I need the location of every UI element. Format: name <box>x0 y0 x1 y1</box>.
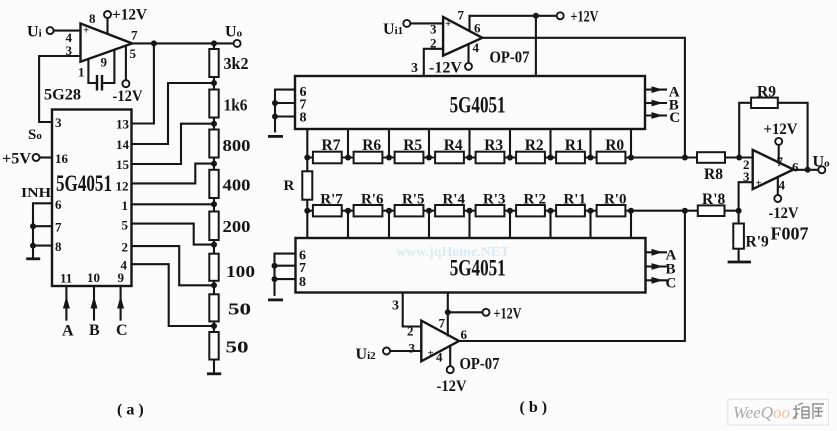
wire U2 pin4 to -12V <box>467 44 469 63</box>
node box2 pin7 <box>272 263 278 269</box>
node R'3R <box>507 208 513 214</box>
svg-text:R0: R0 <box>605 137 624 154</box>
wire U3 output to R' row <box>459 211 685 341</box>
arrow A box2 <box>646 251 667 253</box>
wire pin8 to +12V <box>106 18 108 34</box>
pin 16 wire to +5V <box>40 156 52 158</box>
node tap2 <box>211 121 217 127</box>
svg-text:800: 800 <box>223 136 251 155</box>
svg-text:R'1: R'1 <box>563 192 586 208</box>
svg-text:7: 7 <box>131 28 138 43</box>
svg-text:400: 400 <box>223 176 251 195</box>
wire pin2 to tap6 <box>132 246 215 285</box>
node R'6R <box>386 208 392 214</box>
svg-text:WeeQoo: WeeQoo <box>733 403 790 422</box>
wire Ui2 to U3 pin3 <box>390 350 421 352</box>
wire box2 pins 6,7,8 to ground <box>275 254 296 295</box>
ground (box2) <box>268 298 283 301</box>
node tap5 <box>211 242 217 248</box>
wire pin15 to tap2 <box>132 124 215 164</box>
node tap6 <box>211 282 217 288</box>
svg-text:A: A <box>62 323 74 340</box>
resistor R'7 <box>313 205 342 216</box>
svg-text:200: 200 <box>223 217 251 236</box>
IC 5G4051 box1 (b top) <box>295 76 645 129</box>
resistor R'6 <box>354 205 383 216</box>
node R'8 junction <box>736 208 742 214</box>
svg-text:11: 11 <box>60 271 72 286</box>
wire U3 pin4 to -12V <box>449 346 451 366</box>
resistor 200 <box>209 212 218 241</box>
resistor R2 <box>516 152 545 164</box>
svg-text:8: 8 <box>300 111 307 126</box>
wire pin12 to tap3 <box>132 164 215 184</box>
wire U2 output to R row <box>482 38 685 158</box>
svg-text:4: 4 <box>436 350 443 365</box>
svg-text:+12V: +12V <box>571 9 599 26</box>
node R3R <box>507 155 513 161</box>
resistor R'4 <box>435 205 464 216</box>
svg-text:50: 50 <box>226 338 249 357</box>
resistor 800 <box>209 130 218 158</box>
node U3out-R'row <box>682 208 688 214</box>
wire pin9 to C <box>120 286 122 320</box>
svg-text:R'2: R'2 <box>523 192 546 208</box>
resistor 1k6 <box>209 90 218 118</box>
svg-text:50: 50 <box>228 300 251 319</box>
svg-text:9: 9 <box>101 55 108 70</box>
svg-text:3: 3 <box>743 169 750 184</box>
svg-text:16: 16 <box>55 151 69 166</box>
svg-text:14: 14 <box>116 137 130 152</box>
svg-text:OP-07: OP-07 <box>490 48 530 67</box>
resistor R5 <box>395 152 424 164</box>
resistor R3 <box>476 152 505 164</box>
ground (box1) <box>268 135 283 138</box>
node tap3 <box>211 161 217 167</box>
resistor R4 <box>435 152 464 164</box>
node U2out-Rrow <box>682 155 688 161</box>
svg-text:OP-07: OP-07 <box>460 354 500 373</box>
svg-text:So: So <box>28 127 42 143</box>
wire R'8 junction up to U4 pin3 <box>739 182 753 211</box>
terminal -12V <box>122 80 129 87</box>
svg-text:3: 3 <box>411 61 418 76</box>
svg-text:2: 2 <box>122 240 129 255</box>
node tap4 <box>211 201 217 207</box>
svg-text:6: 6 <box>55 197 62 212</box>
resistor R9 <box>751 98 778 108</box>
ground (R'9) <box>728 261 751 264</box>
node box1 pin7 <box>272 100 278 106</box>
node R0R <box>628 155 634 161</box>
terminal +5V <box>33 154 40 161</box>
arrowhead B <box>91 296 98 309</box>
node R1R <box>588 155 594 161</box>
svg-text:R'7: R'7 <box>320 192 343 208</box>
node R5R <box>426 155 432 161</box>
svg-text:10: 10 <box>87 270 100 285</box>
input terminal Ui1 <box>403 20 410 27</box>
svg-text:C: C <box>116 322 128 339</box>
svg-text:( a ): ( a ) <box>117 402 144 419</box>
arrow B box1 <box>645 102 666 104</box>
svg-text:3: 3 <box>55 115 62 130</box>
wire pin5 to -12V <box>125 46 127 80</box>
svg-text:4: 4 <box>473 40 480 55</box>
node R'4R <box>467 208 473 214</box>
wire Ui1 to op-amp <box>411 22 444 24</box>
wire R'9 to ground <box>738 211 740 260</box>
node box2 pin8 <box>272 276 278 282</box>
wire pin4 to tap7 <box>132 264 215 326</box>
svg-text:4: 4 <box>779 178 786 193</box>
svg-text:R: R <box>284 178 295 194</box>
node +12V branch <box>533 13 539 19</box>
svg-text:5G4051: 5G4051 <box>56 171 112 196</box>
terminal +12V (U3) <box>483 309 490 316</box>
terminal -12V (U2) <box>465 63 472 70</box>
svg-text:100: 100 <box>226 262 255 281</box>
wire U2 pin2 to box1 pin3 <box>424 49 443 76</box>
svg-text:7: 7 <box>439 316 446 331</box>
node R4R <box>467 155 473 161</box>
svg-text:6: 6 <box>461 327 468 342</box>
svg-text:7: 7 <box>299 261 306 276</box>
op-amp OP-07 U3 triangle <box>421 321 459 362</box>
svg-text:+12V: +12V <box>764 121 798 138</box>
wire R9 feedback loop <box>739 103 807 170</box>
svg-text:7: 7 <box>55 220 62 235</box>
wire pins 6,7,8 to ground <box>33 203 52 257</box>
wire pin10 to B <box>93 286 95 320</box>
svg-text:5G28: 5G28 <box>44 87 81 104</box>
resistor R1 <box>556 152 585 164</box>
terminal -12V (U4) <box>774 195 781 202</box>
arrowhead C <box>117 296 124 309</box>
svg-text:R6: R6 <box>362 137 381 154</box>
svg-text:9: 9 <box>118 270 125 285</box>
svg-text:12: 12 <box>116 179 129 194</box>
node R2R <box>548 155 554 161</box>
svg-text:6: 6 <box>474 21 481 36</box>
node output junction (U4) <box>805 167 811 173</box>
resistor R'9 <box>733 224 744 249</box>
svg-text:F007: F007 <box>771 224 809 244</box>
node: ladder top <box>211 40 217 46</box>
wire U4 pin7 to +12V <box>778 145 780 163</box>
svg-text:3: 3 <box>392 299 399 314</box>
terminal Uo <box>234 40 241 47</box>
svg-text:+: + <box>428 348 434 360</box>
node R'5R <box>426 208 432 214</box>
resistor R8 <box>697 152 725 163</box>
svg-text:-12V: -12V <box>429 60 462 77</box>
op-amp OP-07 U2 triangle <box>443 17 482 56</box>
svg-text:1k6: 1k6 <box>224 96 248 115</box>
svg-text:5G4051: 5G4051 <box>450 93 506 118</box>
svg-text:+: + <box>445 18 451 30</box>
svg-text:R8: R8 <box>704 166 723 183</box>
svg-text:8: 8 <box>299 275 306 290</box>
wire to +12V terminal (U3) <box>448 311 483 313</box>
svg-text:R3: R3 <box>484 137 503 154</box>
node pin7 <box>30 223 36 229</box>
svg-text:R9: R9 <box>757 84 776 101</box>
svg-text:5: 5 <box>122 218 129 233</box>
terminal +12V (U4) <box>775 138 782 145</box>
svg-text:8: 8 <box>55 239 62 254</box>
node pin8 <box>30 243 36 249</box>
node R'7R <box>345 208 351 214</box>
arrow A box1 <box>645 89 666 91</box>
wire U4 pin4 to -12V <box>777 177 779 195</box>
watermark WeeQoo box <box>728 399 829 425</box>
svg-text:R5: R5 <box>403 137 422 154</box>
wire U2 pin7 to +12V <box>470 16 557 31</box>
IC 5G4051 box (a) <box>52 110 132 287</box>
svg-text:8: 8 <box>89 11 96 26</box>
svg-text:( b ): ( b ) <box>520 399 548 416</box>
resistor R0 <box>597 152 626 164</box>
node tap1 <box>211 80 217 86</box>
svg-text:R'5: R'5 <box>402 192 425 208</box>
svg-text:+: + <box>83 25 89 37</box>
svg-text:3: 3 <box>430 22 437 37</box>
terminal +12V (b top) <box>557 12 564 19</box>
wire box1 pins 6,7,8 to ground <box>275 90 295 132</box>
resistor R'8 <box>698 205 725 216</box>
resistor R'5 <box>395 205 424 216</box>
wire U4 output to Uo <box>794 169 819 171</box>
wire output pin7 <box>132 42 233 44</box>
node R7L <box>304 155 310 161</box>
node tap7 <box>211 323 217 329</box>
svg-text:B: B <box>89 322 100 339</box>
svg-text:C: C <box>669 110 680 126</box>
svg-text:7: 7 <box>777 154 784 169</box>
svg-text:R'0: R'0 <box>604 192 627 208</box>
terminal Uo (b) <box>818 166 825 173</box>
resistor R6 <box>354 152 383 164</box>
watermark hanzi 维 <box>793 403 809 419</box>
node R'0R <box>628 208 634 214</box>
compensation capacitor wires <box>88 51 114 83</box>
R' row bus wire <box>307 210 738 212</box>
ground (a box) <box>26 257 40 260</box>
resistor R'0 <box>597 205 626 216</box>
resistor 50 <box>209 294 218 321</box>
svg-text:R'8: R'8 <box>702 191 726 208</box>
wire feedback: op-amp pin3 to mux pin3 (node So) <box>39 56 80 122</box>
IC 5G4051 box2 (b bottom) <box>296 238 646 293</box>
svg-text:3: 3 <box>409 341 416 356</box>
svg-text:+: + <box>756 178 762 190</box>
R row bus wire <box>307 156 752 158</box>
svg-text:3k2: 3k2 <box>224 54 249 73</box>
op-amp F007 U4 triangle <box>753 150 794 189</box>
node box1 pin8 <box>272 114 278 120</box>
resistor R'3 <box>476 205 505 216</box>
svg-text:+12V: +12V <box>494 306 522 323</box>
svg-text:R4: R4 <box>444 137 463 154</box>
resistor 3k2 <box>209 49 218 77</box>
svg-text:13: 13 <box>116 117 130 132</box>
ladder wire <box>213 43 215 373</box>
svg-text:7: 7 <box>458 8 465 23</box>
arrow C box1 <box>645 114 666 116</box>
wire box2 pin3 to U3 pin2 <box>403 293 422 327</box>
svg-text:R'3: R'3 <box>483 192 506 208</box>
svg-text:+5V: +5V <box>2 151 31 168</box>
svg-text:R'4: R'4 <box>442 192 465 208</box>
arrow C box2 <box>646 279 667 281</box>
op-amp 5G28 triangle <box>81 24 133 62</box>
svg-text:www.jqHome.NET: www.jqHome.NET <box>396 245 510 260</box>
node: output junction <box>151 40 157 46</box>
input terminal Ui <box>47 27 54 34</box>
wire output down to pin13 <box>132 43 154 123</box>
svg-text:R'6: R'6 <box>361 192 384 208</box>
input terminal Ui2 <box>383 348 390 355</box>
node R'7L <box>304 208 310 214</box>
wire Ui to op-amp pin4 <box>54 30 81 32</box>
svg-text:R2: R2 <box>525 137 544 154</box>
terminal -12V (U3) <box>447 366 454 373</box>
arrowhead A <box>63 296 70 309</box>
resistor R7 <box>313 152 342 164</box>
resistor R'2 <box>516 205 545 216</box>
svg-text:5: 5 <box>130 46 137 61</box>
node +12V branch (U3) <box>445 309 451 315</box>
wire pin5 to tap5 <box>132 224 215 245</box>
wire box2 +12V to U3 pin7 <box>447 293 449 336</box>
compensation capacitor plates <box>97 75 102 91</box>
svg-text:1: 1 <box>122 198 129 213</box>
svg-text:R'9: R'9 <box>746 234 770 251</box>
svg-text:R1: R1 <box>565 137 584 154</box>
wire pin14 to tap1 <box>132 83 215 144</box>
wire pin1 to tap4 <box>132 203 215 205</box>
resistor R vertical <box>306 158 308 211</box>
wires R' row to box2 top <box>307 211 631 238</box>
wires box1 bottom pins to R row <box>307 129 631 158</box>
svg-text:2: 2 <box>407 324 414 339</box>
svg-text:R7: R7 <box>322 137 341 154</box>
svg-text:15: 15 <box>116 157 130 172</box>
node R6R <box>386 155 392 161</box>
svg-text:6: 6 <box>792 160 799 175</box>
watermark hanzi 库 <box>812 404 824 419</box>
wire +12V down to box1 <box>535 16 537 76</box>
svg-text:C: C <box>666 276 677 292</box>
arrow B box2 <box>646 265 667 267</box>
svg-text:+12V: +12V <box>112 7 147 24</box>
svg-text:1: 1 <box>78 65 85 80</box>
ground (ladder) <box>207 372 221 375</box>
node R'1R <box>588 208 594 214</box>
wire pin11 to A <box>65 286 67 320</box>
resistor 400 <box>209 170 218 198</box>
svg-text:-12V: -12V <box>113 88 143 105</box>
svg-text:-12V: -12V <box>769 205 799 222</box>
resistor R'1 <box>556 205 585 216</box>
node R8-R9 junction <box>736 155 742 161</box>
resistor 50 (second) <box>209 332 218 360</box>
svg-text:-12V: -12V <box>437 378 467 395</box>
svg-text:INH: INH <box>21 186 51 201</box>
terminal +12V <box>104 11 111 18</box>
node R'2R <box>548 208 554 214</box>
resistor 100 <box>209 254 218 281</box>
node R7R <box>345 155 351 161</box>
